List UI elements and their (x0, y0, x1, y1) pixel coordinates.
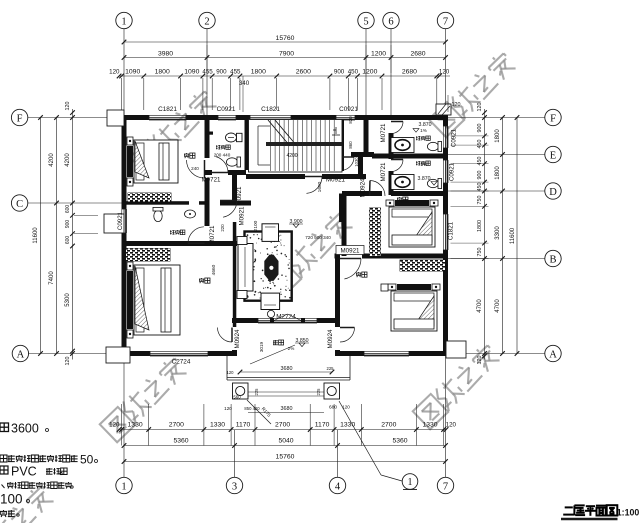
svg-text:1800: 1800 (155, 68, 170, 75)
plan title (565, 506, 573, 508)
svg-text:3300: 3300 (495, 226, 501, 240)
svg-text:1200: 1200 (371, 50, 386, 57)
wardrobe bedroom TL (128, 193, 171, 202)
axis circle 4 bottom (329, 477, 345, 493)
svg-text:225: 225 (316, 388, 321, 396)
svg-text:120: 120 (446, 422, 457, 429)
wardrobe bedroom MR hatch (370, 208, 381, 256)
svg-text:11600: 11600 (510, 227, 516, 244)
svg-text:2600: 2600 (296, 68, 311, 75)
svg-text:M0924: M0924 (234, 329, 241, 348)
svg-text:4200: 4200 (286, 153, 297, 159)
top dim row3 line (119, 75, 450, 77)
svg-text:A: A (549, 349, 557, 360)
svg-text:1600: 1600 (317, 181, 323, 192)
door right hall (343, 157, 354, 170)
right dim col1 line (484, 109, 486, 360)
svg-text:3980: 3980 (158, 50, 173, 57)
svg-text:600: 600 (65, 236, 71, 245)
bottom dim extension lines (121, 404, 123, 446)
svg-text:M0921: M0921 (341, 248, 360, 255)
wall living bottom M2724 (232, 318, 258, 323)
wall axis B right (335, 254, 341, 259)
right dim extension lines (451, 135, 489, 137)
balcony dim 3680 bottom (248, 412, 324, 414)
axis circle F right (545, 109, 561, 125)
window C0921 right upper (442, 126, 444, 148)
svg-text:860: 860 (348, 141, 353, 149)
label M0921 bedroomBR (336, 246, 364, 255)
svg-text:1800: 1800 (495, 129, 501, 143)
svg-text:450: 450 (348, 68, 359, 75)
svg-text:6: 6 (388, 16, 393, 27)
pier top-right (436, 104, 451, 115)
svg-text:1800: 1800 (251, 68, 266, 75)
wall corridor-living (220, 201, 251, 206)
dim 120 topright (447, 95, 449, 112)
svg-text:3600: 3600 (11, 422, 39, 436)
svg-text:1330: 1330 (128, 422, 143, 429)
axis line 7 vertical (445, 29, 447, 477)
svg-text:4200: 4200 (65, 153, 71, 167)
axis line D horizontal (448, 190, 545, 192)
svg-text:340 900: 340 900 (351, 151, 367, 156)
axis line B horizontal (448, 258, 545, 260)
stairs (249, 120, 343, 173)
svg-text:120: 120 (477, 103, 483, 112)
svg-text:900: 900 (477, 124, 483, 133)
svg-text:11600: 11600 (33, 227, 39, 244)
door bathML (188, 227, 204, 244)
svg-text:120: 120 (227, 370, 235, 375)
axis line 4 vertical (337, 430, 339, 477)
svg-text:M0721: M0721 (380, 123, 387, 142)
axis line C horizontal (28, 202, 122, 204)
svg-text:M0924: M0924 (327, 329, 334, 348)
toilet bathR1 (427, 142, 441, 152)
svg-text:225: 225 (327, 366, 335, 371)
svg-text:1: 1 (408, 477, 413, 488)
svg-text:3: 3 (232, 481, 237, 492)
svg-text:100: 100 (0, 492, 23, 507)
axis circle 2 top (199, 12, 215, 28)
svg-text:7: 7 (443, 16, 448, 27)
svg-text:E: E (550, 150, 556, 161)
svg-text:120: 120 (109, 422, 120, 429)
wall axis2 vertical (205, 120, 210, 158)
wall exterior top (122, 115, 150, 120)
dresser bedroom MR (401, 261, 403, 263)
svg-text:1200: 1200 (362, 68, 377, 75)
wardrobe bedroom BL (126, 249, 170, 262)
axis line 2 vertical (206, 29, 208, 120)
svg-text:220: 220 (220, 224, 225, 232)
svg-text:200 440: 200 440 (214, 153, 231, 158)
svg-text:850 420: 850 420 (244, 406, 260, 411)
svg-text:1170: 1170 (236, 422, 251, 429)
axis line 5 vertical (365, 29, 367, 117)
svg-text:C: C (16, 199, 23, 210)
svg-text:1090: 1090 (184, 68, 199, 75)
door bedroomMR (370, 181, 385, 197)
svg-text:4700: 4700 (477, 299, 483, 313)
room label bedroom TL (184, 153, 189, 155)
balcony deck edge (227, 377, 350, 379)
svg-text:2100: 2100 (253, 220, 259, 231)
svg-text:900: 900 (65, 220, 71, 229)
svg-text:7400: 7400 (49, 271, 55, 285)
svg-text:1330: 1330 (210, 422, 225, 429)
leader R175 left column (247, 400, 271, 424)
room label bedroom MR (397, 197, 402, 199)
pier bottom-left (106, 347, 130, 363)
wall stair bottom (246, 174, 305, 179)
svg-text:7: 7 (443, 481, 448, 492)
room label bathR2 (416, 161, 418, 165)
svg-text:4200: 4200 (49, 153, 55, 167)
svg-text:340: 340 (239, 80, 250, 87)
bottom dim row2 line (124, 445, 446, 447)
svg-text:15760: 15760 (276, 454, 295, 461)
axis circle E right (545, 146, 561, 162)
svg-text:1: 1 (121, 481, 126, 492)
pier mid-left (104, 214, 124, 233)
axis circle 6 top (383, 12, 399, 28)
svg-text:C1821: C1821 (261, 106, 280, 113)
svg-text:A: A (17, 349, 25, 360)
svg-text:M0924: M0924 (360, 178, 367, 197)
svg-text:2700: 2700 (275, 422, 290, 429)
axis circle 7 bottom (437, 477, 453, 493)
wall axis4 lower (335, 256, 340, 327)
axis circle 5 top (358, 12, 374, 28)
svg-text:680: 680 (329, 405, 337, 411)
svg-text:1330: 1330 (422, 422, 437, 429)
window-door M2724 band (258, 317, 317, 319)
top dim row2 line (124, 57, 446, 59)
svg-text:225: 225 (254, 388, 259, 396)
axis circle A right (545, 345, 561, 361)
wall bath right divider E (372, 154, 448, 159)
left dim col mid line (56, 118, 58, 354)
svg-text:5300: 5300 (65, 293, 71, 307)
door bedroomBR (344, 259, 361, 280)
wall axis4 upper (339, 194, 344, 223)
svg-text:50: 50 (80, 453, 94, 467)
bed bedroom mid-right (386, 200, 394, 206)
axis line F horizontal (28, 117, 122, 119)
svg-text:1030: 1030 (354, 157, 359, 167)
svg-text:7900: 7900 (279, 50, 294, 57)
axis circle 1 top (116, 12, 132, 28)
room label bathTM (216, 145, 218, 149)
wall axis3 vertical (232, 170, 237, 205)
svg-text:D: D (549, 187, 557, 198)
svg-text:4660: 4660 (211, 264, 217, 275)
door bedroomTL (187, 160, 205, 178)
window C1821 stairwell (250, 114, 291, 116)
wall axis D right (342, 191, 382, 196)
wall stairwell left (245, 120, 249, 170)
svg-text:1800: 1800 (477, 220, 483, 232)
svg-text:2700: 2700 (381, 422, 396, 429)
svg-text:3680: 3680 (281, 406, 293, 412)
toilet bathR2 (427, 179, 441, 189)
axis line 1 vertical (123, 29, 125, 477)
axis circle A left (12, 345, 28, 361)
svg-text:5040: 5040 (278, 438, 293, 445)
wall exterior right (443, 115, 448, 126)
wall exterior left (122, 115, 127, 209)
svg-text:2700: 2700 (169, 422, 184, 429)
watermark 5 (413, 342, 502, 429)
window C1821 top-left (149, 114, 186, 116)
top dim extension lines (121, 78, 123, 110)
svg-text:C0921: C0921 (449, 162, 456, 181)
watermark 4 (100, 355, 189, 442)
svg-text:900: 900 (477, 171, 483, 180)
bed bedroom bottom-right (388, 284, 396, 290)
axis line A horizontal (28, 353, 122, 355)
svg-text:120: 120 (109, 68, 120, 75)
door bathTM (216, 157, 228, 173)
svg-text:1: 1 (121, 16, 126, 27)
room label balcony (273, 340, 278, 342)
svg-text:820: 820 (348, 116, 353, 124)
svg-text:5: 5 (363, 16, 368, 27)
door living-corridor (223, 201, 237, 218)
window C1821 right (442, 214, 444, 250)
wall stairwell right (340, 120, 344, 171)
axis line 3 vertical (234, 430, 236, 477)
axis circle B right (545, 250, 561, 266)
balcony rail lines (248, 391, 324, 393)
axis circle F left (11, 109, 27, 125)
svg-text:1330: 1330 (340, 422, 355, 429)
basin bathTM (226, 133, 237, 142)
svg-text:M0721: M0721 (209, 225, 216, 244)
svg-text:M0921: M0921 (239, 206, 246, 225)
toilet bathTM (226, 157, 240, 167)
svg-text:C0921: C0921 (117, 211, 124, 230)
left small extension lines (74, 214, 98, 216)
leader to detail 1 (339, 401, 381, 475)
axis circle 3 bottom (226, 477, 242, 493)
bed bedroom top-left (127, 137, 133, 145)
svg-text:120: 120 (477, 356, 483, 365)
axis circle D right (545, 183, 561, 199)
door stair hall (307, 177, 323, 194)
svg-text:120: 120 (65, 102, 71, 111)
svg-text:PVC: PVC (11, 465, 37, 479)
svg-text:F: F (17, 113, 23, 124)
svg-text:450: 450 (477, 140, 483, 149)
wall bathTM bottom (205, 170, 213, 175)
svg-text:1%: 1% (420, 128, 427, 133)
balcony dim 3680 row (240, 371, 332, 373)
svg-text:2: 2 (204, 16, 209, 27)
window C0921 right lower (442, 160, 444, 183)
svg-text:450: 450 (477, 183, 483, 192)
left dim col outer line (40, 118, 42, 354)
svg-text:120: 120 (439, 68, 450, 75)
svg-text:1090: 1090 (125, 68, 140, 75)
watermark 2 (429, 50, 518, 137)
bottom dim row1 line (119, 429, 446, 431)
balcony slope line (250, 345, 295, 364)
bottom dim row3 line (124, 461, 446, 463)
svg-text:1800: 1800 (495, 166, 501, 180)
window C0921 left (121, 209, 123, 233)
svg-text:120: 120 (452, 102, 461, 108)
svg-text:3.870: 3.870 (418, 176, 431, 182)
pier bottom-right (446, 341, 466, 358)
basin bathML (185, 210, 196, 218)
shower stall bath right2 (391, 175, 414, 190)
room label bathML (170, 230, 172, 235)
svg-text:C1821: C1821 (448, 221, 455, 240)
watermark 3 (266, 209, 355, 296)
svg-text:3680: 3680 (281, 366, 293, 372)
door bathR2 (391, 160, 403, 172)
svg-text:750: 750 (477, 248, 483, 257)
bathtub bathML (189, 212, 191, 214)
bed bedroom bottom-left (127, 262, 133, 270)
watermark 6 (0, 483, 56, 523)
axis line E horizontal (448, 154, 545, 156)
svg-text:1170: 1170 (315, 422, 330, 429)
room label bedroom BL (199, 278, 204, 280)
svg-text:B: B (549, 254, 556, 265)
pier top-left (107, 110, 124, 126)
watermark 1 (130, 88, 219, 175)
wall exterior bottom (122, 351, 151, 356)
window C0921 top-right (336, 114, 355, 116)
svg-text:750: 750 (477, 196, 483, 205)
svg-text:1:100: 1:100 (617, 508, 640, 518)
svg-text:C0921: C0921 (451, 128, 458, 147)
svg-text:450: 450 (477, 157, 483, 166)
svg-text:C0921: C0921 (217, 106, 236, 113)
window C2724 bottom-left (150, 350, 208, 352)
svg-text:15760: 15760 (276, 35, 295, 42)
door balcony left M0924 (218, 328, 233, 343)
svg-text:5360: 5360 (392, 438, 407, 445)
window bottom-right bedroom (364, 350, 409, 352)
svg-text:900: 900 (216, 68, 227, 75)
door bathR1 (391, 122, 403, 134)
balcony col left (233, 383, 249, 399)
wall bedroomTL bottom (122, 201, 190, 205)
stairs up label (335, 127, 337, 134)
nightstand squares BR (381, 284, 388, 291)
balcony col right (324, 383, 340, 399)
notes text block (0, 423, 9, 432)
svg-text:240: 240 (191, 166, 199, 171)
toilet bathML (153, 207, 163, 221)
svg-text:600: 600 (65, 205, 71, 214)
svg-text:M2724: M2724 (276, 314, 296, 321)
svg-text:4700: 4700 (495, 299, 501, 313)
svg-text:M0721: M0721 (380, 162, 387, 181)
pipe stub bathTM (207, 132, 213, 135)
window C0921 top-mid (218, 114, 236, 116)
svg-text:2680: 2680 (402, 68, 417, 75)
svg-text:C0921: C0921 (339, 106, 358, 113)
svg-text:2680: 2680 (410, 50, 425, 57)
wall bathML bottom (122, 241, 238, 246)
svg-text:720 900 340: 720 900 340 (305, 235, 331, 240)
dresser bedroom BR (400, 260, 445, 271)
axis line 6 vertical (390, 29, 392, 117)
svg-text:455: 455 (202, 68, 213, 75)
svg-text:F: F (550, 113, 556, 124)
svg-text:120: 120 (224, 406, 232, 411)
top dim row1 line (124, 41, 446, 43)
wall axis6 vertical (389, 133, 394, 159)
svg-text:120: 120 (65, 357, 71, 366)
detail circle 1 (402, 474, 418, 490)
axis circle C left (11, 195, 27, 211)
svg-text:M0921: M0921 (326, 177, 345, 184)
wall stair right axis5 (364, 120, 369, 152)
room label bathR1 (416, 136, 418, 140)
svg-text:460: 460 (342, 208, 347, 216)
axis circle 7 top (437, 12, 453, 28)
svg-text:560: 560 (233, 395, 241, 400)
right dim col3 line (516, 118, 518, 354)
svg-text:C2724: C2724 (172, 359, 191, 366)
right dim col2 line (502, 118, 504, 354)
room label bedroom BR (356, 272, 361, 274)
svg-text:900: 900 (334, 68, 345, 75)
svg-text:3019: 3019 (259, 341, 264, 352)
living room furniture (245, 232, 292, 301)
shower stall bath right1 (391, 138, 414, 153)
door balcony right M0924 (340, 328, 355, 343)
axis circle 1 bottom (116, 477, 132, 493)
svg-text:4: 4 (335, 481, 341, 492)
svg-text:5360: 5360 (173, 438, 188, 445)
svg-text:C1821: C1821 (158, 106, 177, 113)
left dim col inner line (72, 109, 74, 360)
svg-text:455: 455 (230, 68, 241, 75)
